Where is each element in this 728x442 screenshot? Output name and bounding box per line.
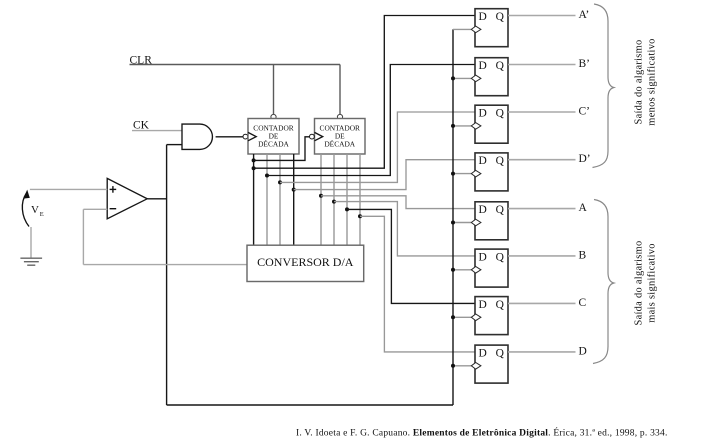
svg-text:B: B (579, 249, 587, 261)
svg-text:Saída do algarismo: Saída do algarismo (634, 240, 645, 325)
svg-text:D: D (478, 251, 486, 263)
svg-text:D: D (478, 347, 486, 359)
svg-text:D: D (478, 204, 486, 216)
svg-text:I. V. Idoeta e F. G. Capuano.: I. V. Idoeta e F. G. Capuano. Elementos … (296, 426, 668, 438)
svg-text:Q: Q (496, 251, 505, 263)
svg-text:DÉCADA: DÉCADA (258, 138, 289, 148)
svg-text:A: A (579, 202, 588, 214)
svg-text:Q: Q (496, 11, 505, 23)
svg-text:E: E (40, 211, 44, 218)
svg-text:D: D (579, 345, 587, 357)
svg-text:CONVERSOR D/A: CONVERSOR D/A (257, 255, 354, 269)
svg-text:V: V (31, 204, 39, 216)
svg-text:B’: B’ (579, 58, 591, 70)
svg-text:C’: C’ (579, 106, 591, 118)
svg-text:C: C (579, 297, 587, 309)
svg-text:D: D (478, 60, 486, 72)
svg-text:Q: Q (496, 60, 505, 72)
svg-text:Saída do algarismo: Saída do algarismo (634, 39, 645, 124)
svg-text:DÉCADA: DÉCADA (324, 138, 355, 148)
svg-text:Q: Q (496, 204, 505, 216)
svg-text:Q: Q (496, 107, 505, 119)
svg-text:Q: Q (496, 155, 505, 167)
svg-text:Q: Q (496, 299, 505, 311)
svg-text:D: D (478, 155, 486, 167)
svg-text:Q: Q (496, 347, 505, 359)
svg-text:CK: CK (133, 120, 150, 132)
svg-text:menos significativo: menos significativo (647, 38, 658, 125)
svg-text:A’: A’ (579, 9, 590, 21)
svg-text:D: D (478, 107, 486, 119)
svg-text:D: D (478, 299, 486, 311)
svg-text:D: D (478, 11, 486, 23)
svg-text:mais significativo: mais significativo (647, 243, 658, 323)
svg-text:D’: D’ (579, 153, 591, 165)
